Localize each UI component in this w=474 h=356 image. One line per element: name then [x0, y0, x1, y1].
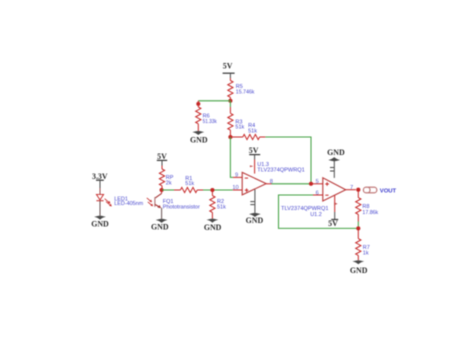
pin 8 output: [266, 179, 273, 185]
svg-text:6: 6: [316, 190, 319, 196]
power 5V (U1.2 bottom): [328, 212, 338, 228]
svg-text:1k: 1k: [363, 250, 369, 256]
node G junction: [356, 226, 360, 230]
ground: [190, 131, 208, 145]
pin 11: [250, 190, 255, 213]
resistor R7: [356, 228, 370, 260]
port VOUT: [363, 187, 396, 194]
pin 4: [250, 160, 255, 174]
svg-text:51.33k: 51.33k: [203, 119, 217, 125]
pin 7 output: [346, 185, 356, 191]
ground: [151, 219, 169, 232]
resistor RP: [159, 166, 173, 191]
op-amp U1.2: [323, 178, 346, 201]
svg-text:GND: GND: [246, 216, 264, 225]
pin 9: [233, 173, 242, 179]
power 5V (R5): [223, 62, 235, 78]
svg-text:5V: 5V: [223, 62, 233, 71]
wire pin9 feedback: [230, 137, 233, 177]
pin 4 (U1.2): [334, 195, 338, 212]
wire: [357, 222, 359, 229]
svg-text:10: 10: [232, 185, 238, 191]
power 5V (U1.3): [249, 146, 260, 159]
wire: [357, 190, 359, 198]
svg-text:5V: 5V: [157, 152, 167, 161]
svg-text:GND: GND: [91, 219, 109, 228]
wire: [162, 189, 174, 191]
svg-text:2k: 2k: [166, 181, 172, 187]
svg-text:51k: 51k: [217, 204, 226, 210]
node B junction: [210, 188, 214, 192]
svg-text:U1.2: U1.2: [310, 212, 322, 218]
ground: [91, 216, 109, 229]
wire: [265, 137, 311, 184]
pin 10: [232, 185, 242, 191]
svg-text:7: 7: [350, 185, 353, 191]
svg-text:GND: GND: [151, 223, 169, 232]
svg-text:TLV2374QPWRQ1: TLV2374QPWRQ1: [257, 168, 305, 174]
svg-text:17.86k: 17.86k: [362, 210, 378, 216]
node E junction: [309, 182, 313, 186]
label U1.2: [281, 206, 329, 218]
svg-text:51k: 51k: [185, 181, 194, 187]
resistor R4: [230, 123, 265, 139]
wire: [203, 189, 233, 191]
wire: [99, 188, 101, 194]
ground (top, U1.2): [327, 148, 345, 161]
svg-text:VOUT: VOUT: [380, 188, 397, 194]
wire: [229, 101, 231, 107]
ground: [204, 219, 222, 233]
wire: [99, 201, 101, 216]
pin 5: [311, 179, 323, 185]
svg-text:GND: GND: [350, 266, 368, 275]
wire feedback: [279, 195, 359, 228]
ground: [246, 213, 264, 225]
label FQ1: [163, 199, 200, 210]
resistor R8: [356, 198, 379, 222]
node A junction: [160, 188, 164, 192]
junction: [196, 102, 200, 106]
LED LED1: [96, 194, 111, 206]
resistor R6: [196, 101, 217, 131]
svg-text:5V: 5V: [249, 146, 259, 155]
svg-text:5: 5: [316, 179, 319, 185]
power 5V (RP): [157, 152, 167, 166]
pin 11 (U1.2): [330, 161, 334, 178]
transistor FQ1: [147, 190, 162, 208]
svg-text:LED-405nm: LED-405nm: [114, 201, 143, 207]
wire: [198, 100, 230, 102]
resistor R5: [228, 78, 255, 101]
node D junction: [228, 135, 232, 139]
svg-text:GND: GND: [190, 136, 208, 145]
svg-text:5V: 5V: [328, 219, 338, 228]
svg-text:51k: 51k: [235, 125, 244, 131]
wire: [161, 208, 163, 219]
power 3.3V: [92, 172, 108, 188]
svg-text:GND: GND: [204, 223, 222, 232]
resistor R2: [210, 190, 226, 219]
ground: [350, 260, 368, 275]
node C junction: [228, 99, 232, 103]
svg-text:3.3V: 3.3V: [92, 172, 108, 181]
svg-text:51k: 51k: [248, 128, 257, 134]
label LED1: [114, 196, 143, 207]
op-amp U1.3: [242, 172, 266, 195]
wire: [272, 183, 312, 185]
label U1.3: [257, 162, 305, 174]
resistor R3: [228, 107, 245, 137]
svg-text:15.746k: 15.746k: [236, 89, 255, 95]
resistor R1: [174, 176, 203, 193]
node F junction: [356, 188, 360, 192]
svg-text:Phototransistor: Phototransistor: [163, 204, 200, 210]
pin 6: [313, 190, 323, 196]
svg-text:9: 9: [235, 173, 238, 179]
svg-text:GND: GND: [327, 148, 345, 157]
